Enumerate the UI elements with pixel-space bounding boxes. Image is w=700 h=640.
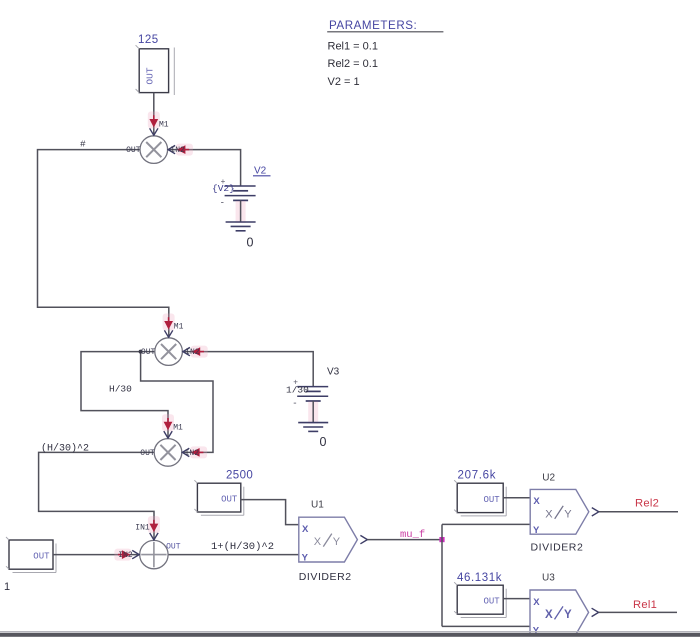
svg-text:X: X (545, 508, 553, 520)
svg-text:2500: 2500 (226, 470, 253, 482)
svg-text:X: X (545, 609, 553, 621)
svg-text:Rel2 = 0.1: Rel2 = 0.1 (328, 58, 378, 70)
svg-text:M1: M1 (173, 423, 183, 432)
svg-text:Y: Y (564, 609, 572, 621)
svg-text:(H/30)^2: (H/30)^2 (41, 443, 89, 455)
svg-text:IN2: IN2 (185, 348, 200, 357)
svg-text:DIVIDER2: DIVIDER2 (299, 571, 352, 583)
svg-text:-: - (221, 198, 224, 209)
svg-text:OUT: OUT (483, 495, 500, 505)
svg-text:PARAMETERS:: PARAMETERS: (329, 19, 417, 32)
svg-text:1/30: 1/30 (286, 385, 309, 396)
svg-text:M1: M1 (174, 323, 184, 332)
svg-text:1: 1 (4, 581, 10, 593)
svg-text:Y: Y (333, 536, 341, 548)
svg-text:V2 = 1: V2 = 1 (328, 76, 360, 88)
svg-text:0: 0 (320, 435, 327, 449)
svg-text:DIVIDER2: DIVIDER2 (531, 541, 584, 553)
svg-text:U3: U3 (542, 573, 555, 584)
svg-text:Rel1 = 0.1: Rel1 = 0.1 (328, 41, 378, 53)
svg-text:OUT: OUT (33, 552, 50, 562)
svg-text:{V2}: {V2} (212, 183, 235, 194)
svg-text:V3: V3 (327, 367, 340, 378)
svg-text:207.6k: 207.6k (458, 470, 497, 482)
svg-text:V2: V2 (254, 166, 267, 177)
svg-text:H/30: H/30 (109, 384, 132, 395)
svg-text:Rel1: Rel1 (633, 599, 657, 611)
svg-text:#: # (80, 139, 86, 150)
svg-text:IN2: IN2 (170, 146, 185, 155)
svg-text:M1: M1 (159, 121, 169, 130)
svg-text:OUT: OUT (145, 67, 156, 84)
svg-text:46.131k: 46.131k (457, 572, 502, 584)
svg-text:mu_f: mu_f (400, 529, 425, 541)
svg-text:-: - (293, 398, 296, 409)
svg-text:Y: Y (564, 508, 572, 520)
svg-text:Rel2: Rel2 (635, 497, 659, 509)
svg-text:OUT: OUT (483, 597, 500, 607)
svg-text:X: X (533, 496, 540, 507)
svg-text:IN1: IN1 (135, 523, 150, 532)
svg-text:OUT: OUT (221, 495, 238, 505)
svg-text:OUT: OUT (141, 348, 156, 357)
svg-text:0: 0 (247, 236, 254, 250)
svg-text:OUT: OUT (140, 449, 155, 458)
svg-text:125: 125 (138, 34, 159, 46)
svg-text:OUT: OUT (126, 146, 141, 155)
svg-text:Y: Y (302, 553, 309, 564)
svg-text:U1: U1 (311, 500, 324, 511)
svg-text:U2: U2 (542, 472, 555, 483)
svg-text:Y: Y (533, 525, 540, 536)
svg-text:X: X (533, 597, 540, 608)
svg-text:OUT: OUT (166, 542, 181, 551)
svg-text:IN2: IN2 (118, 551, 133, 560)
svg-text:1+(H/30)^2: 1+(H/30)^2 (211, 541, 274, 553)
svg-text:X: X (302, 524, 309, 535)
svg-text:IN2: IN2 (185, 449, 200, 458)
svg-text:X: X (314, 536, 322, 548)
